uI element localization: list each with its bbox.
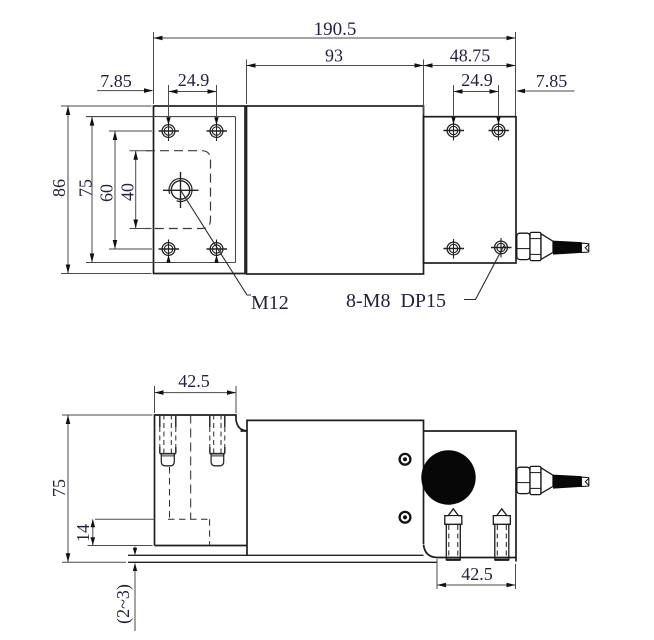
svg-text:40: 40 [118, 183, 138, 201]
svg-text:48.75: 48.75 [450, 46, 491, 66]
svg-text:93: 93 [325, 46, 343, 66]
svg-text:7.85: 7.85 [536, 71, 568, 91]
svg-text:14: 14 [73, 524, 93, 542]
svg-text:M12: M12 [251, 292, 289, 314]
svg-text:190.5: 190.5 [314, 19, 357, 40]
svg-text:8-M8 DP15: 8-M8 DP15 [346, 290, 446, 312]
svg-text:86: 86 [49, 179, 69, 197]
svg-text:24.9: 24.9 [178, 70, 210, 90]
svg-text:42.5: 42.5 [461, 564, 493, 584]
svg-text:60: 60 [97, 184, 117, 202]
svg-text:7.85: 7.85 [100, 71, 132, 91]
svg-text:75: 75 [49, 479, 69, 497]
svg-text:24.9: 24.9 [461, 70, 493, 90]
svg-text:75: 75 [76, 179, 96, 197]
svg-text:(2~3): (2~3) [113, 584, 134, 624]
svg-text:42.5: 42.5 [178, 371, 210, 391]
